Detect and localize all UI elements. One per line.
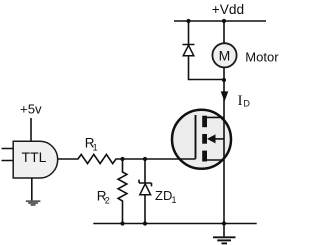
svg-text:ZD: ZD [155, 188, 172, 203]
svg-text:M: M [219, 47, 231, 63]
svg-text:+Vdd: +Vdd [212, 2, 244, 17]
svg-text:1: 1 [172, 195, 177, 205]
svg-text:D: D [243, 99, 250, 109]
svg-text:2: 2 [105, 195, 110, 205]
svg-text:Motor: Motor [245, 50, 279, 65]
svg-text:I: I [238, 93, 243, 109]
svg-text:+5v: +5v [20, 102, 42, 117]
svg-text:TTL: TTL [22, 149, 47, 165]
svg-text:1: 1 [93, 143, 98, 153]
